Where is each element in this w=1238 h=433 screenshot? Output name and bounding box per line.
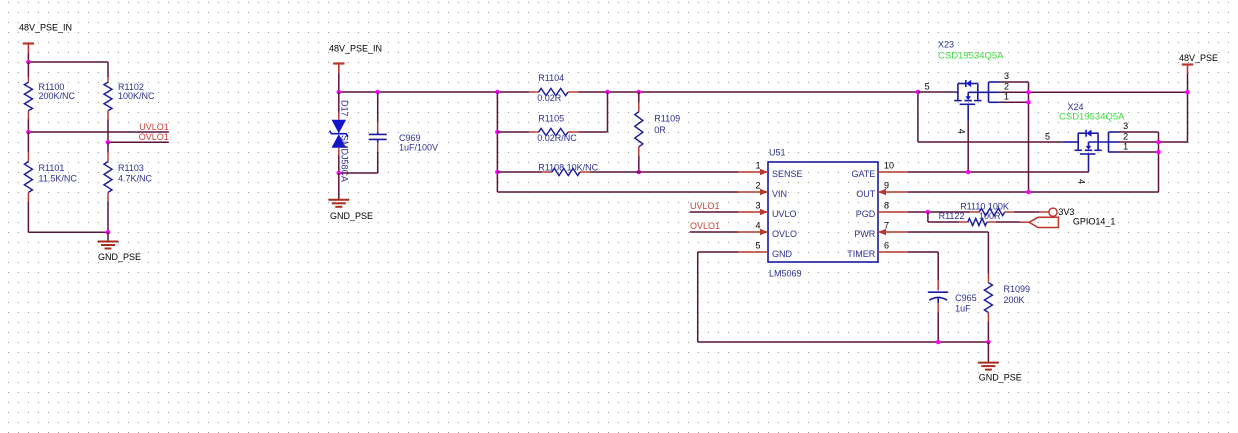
node junction (108,232): [106, 230, 111, 235]
node junction (1158,142): [1156, 140, 1161, 145]
wire R1122 to GPIO flag: [996, 221, 1020, 223]
resistor R1102: [104, 82, 155, 111]
svg-text:3V3: 3V3: [1058, 207, 1074, 217]
wire X24 pin4 gate lead: [1088, 154, 1090, 172]
svg-text:SMDJ58CA: SMDJ58CA: [340, 135, 350, 182]
svg-text:1uF/100V: 1uF/100V: [399, 143, 438, 153]
svg-text:100R: 100R: [979, 211, 1001, 221]
resistor R1099: [984, 274, 1030, 322]
wire SENSE row left: [497, 171, 542, 173]
wire C965 bottom: [937, 303, 939, 342]
svg-text:1uF: 1uF: [955, 304, 971, 314]
svg-text:0.02R: 0.02R: [537, 93, 562, 103]
transistor X23 drain pins box: [989, 71, 1010, 102]
wire X23 output vertical: [1028, 82, 1030, 192]
svg-text:LM5069: LM5069: [769, 268, 802, 278]
wire PGD row: [908, 211, 970, 213]
wire sense column vertical: [496, 92, 498, 192]
node junction (378,92): [375, 90, 380, 95]
svg-text:9: 9: [884, 181, 889, 191]
svg-text:2: 2: [1123, 131, 1128, 141]
svg-text:5: 5: [925, 82, 930, 92]
svg-text:SENSE: SENSE: [772, 169, 803, 179]
pin 4 OVLO: [738, 221, 797, 240]
wire GND pin5 routing: [698, 252, 989, 342]
svg-text:R1101: R1101: [39, 163, 65, 173]
svg-text:C969: C969: [399, 133, 421, 143]
svg-text:U51: U51: [769, 148, 786, 158]
svg-text:OUT: OUT: [856, 189, 876, 199]
wire C969 bottom lead: [339, 139, 378, 173]
net label UVLO1 (pin3): [690, 201, 738, 212]
wire X24 output vertical: [1158, 132, 1160, 192]
wire R1101 bottom lead: [27, 193, 29, 233]
wire R1099 bottom: [987, 322, 989, 343]
wire OVLO1 net: [108, 141, 169, 143]
svg-text:10: 10: [884, 161, 894, 171]
resistor R1103: [104, 162, 153, 193]
wire R1102 top lead: [107, 62, 109, 82]
svg-text:R1104: R1104: [538, 73, 564, 83]
node junction (1028,192): [1026, 190, 1031, 195]
op-amp U51 LM5069 box: [768, 148, 878, 279]
node junction (1028,92): [1026, 90, 1031, 95]
wire rail to gate column: [639, 91, 918, 93]
svg-text:R1099: R1099: [1004, 284, 1031, 294]
wire D17 bottom lead: [338, 148, 340, 173]
power 48V_PSE: [1179, 53, 1218, 92]
power 48V_PSE_IN (middle): [329, 44, 382, 93]
wire R1104 to junction: [579, 91, 639, 93]
svg-text:6: 6: [884, 241, 889, 251]
pin 5 GND: [738, 241, 793, 260]
svg-text:1: 1: [1123, 142, 1128, 152]
svg-text:UVLO1: UVLO1: [139, 122, 169, 132]
svg-text:D17: D17: [340, 100, 350, 117]
resistor R1109: [635, 112, 680, 147]
node junction (938,342): [936, 340, 941, 345]
wire OUT row: [908, 191, 1159, 193]
svg-text:200K: 200K: [1004, 295, 1025, 305]
node junction (497,92): [495, 90, 500, 95]
pin 6 TIMER: [847, 241, 908, 260]
svg-text:11.5K/NC: 11.5K/NC: [39, 173, 78, 183]
pin 10 GATE: [851, 161, 908, 180]
svg-text:R1108 10K/NC: R1108 10K/NC: [538, 162, 598, 172]
svg-text:4.7K/NC: 4.7K/NC: [118, 173, 153, 183]
svg-text:2: 2: [1004, 81, 1009, 91]
svg-text:C965: C965: [955, 293, 977, 303]
svg-text:4: 4: [956, 129, 966, 134]
svg-text:GND_PSE: GND_PSE: [979, 372, 1022, 382]
wire X24 drain pin rows: [1119, 132, 1189, 152]
ground GND_PSE (left): [98, 232, 142, 262]
net label OVLO1 (pin4): [690, 221, 738, 232]
wire VIN to pin 2: [497, 191, 738, 193]
wire R1122 branch: [928, 212, 959, 222]
node junction (339,173): [337, 171, 342, 176]
svg-text:CSD19534Q5A: CSD19534Q5A: [1059, 112, 1125, 123]
svg-text:OVLO1: OVLO1: [139, 132, 169, 142]
svg-text:2: 2: [755, 181, 760, 191]
svg-text:4: 4: [755, 221, 760, 231]
resistor R1105: [529, 114, 579, 144]
transistor X23 CSD19534Q5A: [925, 40, 1004, 105]
wire C969 top lead: [377, 92, 379, 134]
node junction (988,342): [986, 340, 991, 345]
pin 2 VIN: [738, 181, 787, 200]
svg-text:5: 5: [1045, 132, 1050, 142]
svg-text:3: 3: [755, 201, 760, 211]
node junction (928,212): [926, 210, 931, 215]
node junction (1158,152): [1156, 150, 1161, 155]
transistor X24 CSD19534Q5A: [1045, 102, 1125, 154]
svg-text:TIMER: TIMER: [847, 249, 875, 259]
node junction (639,92): [637, 90, 642, 95]
node junction (608,92): [605, 90, 610, 95]
svg-text:3: 3: [1123, 121, 1128, 131]
svg-text:48V_PSE_IN: 48V_PSE_IN: [329, 44, 382, 54]
svg-text:GND: GND: [772, 249, 793, 259]
node junction (497,172): [495, 170, 500, 175]
wire X23 pin4 gate lead: [967, 104, 969, 172]
wire bottom rail left: [28, 231, 108, 233]
capacitor C965: [928, 292, 977, 313]
svg-text:GPIO14_1: GPIO14_1: [1073, 217, 1116, 227]
svg-text:X23: X23: [938, 40, 954, 50]
wire PWR row to R1099: [908, 232, 988, 274]
node junction (1188,92): [1185, 90, 1190, 95]
port GPIO14_1 flag: [1029, 217, 1115, 228]
svg-text:PGD: PGD: [856, 209, 876, 219]
node junction (497,132): [495, 130, 500, 135]
wire R1103 bottom lead: [107, 193, 109, 233]
wire X23 drain lead: [918, 91, 956, 93]
wire R1100 top lead: [27, 62, 29, 82]
node junction (339,92): [337, 90, 342, 95]
wire 48V_PSE vertical: [1187, 92, 1189, 142]
resistor R1104: [529, 73, 579, 103]
svg-text:R1105: R1105: [538, 114, 564, 124]
resistor R1122: [939, 211, 1001, 226]
svg-text:4: 4: [1077, 179, 1087, 184]
svg-text:3: 3: [1004, 71, 1009, 81]
power 3V3 circle: [1049, 207, 1075, 218]
svg-text:0R: 0R: [654, 125, 666, 135]
wire R1102 bottom lead: [107, 111, 109, 143]
pin 3 UVLO: [738, 201, 797, 220]
node junction (918,92): [916, 90, 921, 95]
svg-text:UVLO: UVLO: [772, 209, 797, 219]
transistor X24 drain pins box: [1109, 121, 1129, 152]
wire gate drive vertical X24: [918, 92, 1063, 142]
pin 9 OUT: [856, 181, 908, 200]
svg-text:PWR: PWR: [854, 229, 875, 239]
wire R1105 row: [497, 92, 607, 132]
svg-text:GATE: GATE: [851, 169, 875, 179]
svg-text:5: 5: [755, 241, 760, 251]
svg-text:X24: X24: [1068, 102, 1084, 112]
svg-text:VIN: VIN: [772, 189, 787, 199]
svg-text:1: 1: [755, 161, 760, 171]
resistor R1100: [24, 82, 75, 111]
wire SENSE to pin 1: [590, 171, 738, 173]
resistor R1108: [538, 162, 598, 175]
wire X23 drain pin rows: [999, 82, 1189, 102]
node junction (108,142): [106, 140, 111, 145]
wire GATE row: [908, 171, 1089, 173]
svg-text:48V_PSE_IN: 48V_PSE_IN: [19, 23, 72, 33]
power 48V_PSE_IN (left): [19, 23, 72, 63]
pin 8 PGD: [856, 201, 908, 220]
wire R1109 top lead: [638, 92, 640, 112]
TVS diode D17 SMDJ58CA: [330, 100, 350, 182]
svg-text:7: 7: [884, 221, 889, 231]
node junction (1028,102): [1026, 100, 1031, 105]
svg-text:100K/NC: 100K/NC: [118, 91, 155, 101]
svg-text:8: 8: [884, 201, 889, 211]
wire R1110 to 3V3: [1014, 211, 1039, 213]
wire R1103 top lead: [107, 142, 109, 161]
ground GND_PSE (right): [978, 342, 1022, 382]
svg-text:OVLO1: OVLO1: [690, 221, 720, 231]
svg-text:UVLO1: UVLO1: [690, 201, 720, 211]
svg-text:0.02R/NC: 0.02R/NC: [537, 133, 577, 143]
svg-text:R1109: R1109: [654, 114, 680, 124]
svg-text:GND_PSE: GND_PSE: [330, 211, 373, 221]
ground GND_PSE (middle): [328, 173, 373, 221]
svg-text:CSD19534Q5A: CSD19534Q5A: [938, 51, 1004, 62]
wire input rail y=92: [339, 91, 529, 93]
wire R1109 bottom lead: [638, 147, 640, 172]
svg-text:200K/NC: 200K/NC: [39, 91, 76, 101]
node junction (28,132): [26, 130, 31, 135]
wire TIMER row to C965: [908, 252, 938, 291]
resistor R1110: [960, 202, 1014, 216]
node junction (639,172): [637, 170, 642, 175]
wire D17 top lead: [338, 92, 340, 120]
resistor R1101: [24, 162, 77, 193]
svg-text:GND_PSE: GND_PSE: [98, 252, 141, 262]
wire UVLO1 net: [28, 131, 168, 133]
node junction (28,62): [26, 60, 31, 65]
wire R1101 top lead: [27, 132, 29, 162]
pin 1 SENSE: [738, 161, 803, 180]
svg-text:R1122: R1122: [939, 211, 965, 221]
capacitor C969: [369, 133, 438, 153]
wire top rail left: [28, 61, 108, 63]
node junction (968,172): [966, 170, 971, 175]
wire R1100 bottom lead: [27, 111, 29, 132]
svg-text:R1103: R1103: [118, 163, 144, 173]
svg-text:48V_PSE: 48V_PSE: [1179, 53, 1218, 63]
pin 7 PWR: [854, 221, 908, 240]
svg-text:OVLO: OVLO: [772, 229, 797, 239]
